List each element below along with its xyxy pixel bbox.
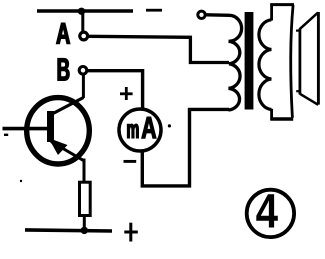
loudspeaker cone [300, 12, 319, 105]
plus polarity (meter) [120, 87, 133, 100]
transformer T1 secondary winding [259, 20, 272, 110]
wire (emitter to resistor) [83, 159, 86, 184]
top supply rail [37, 9, 133, 13]
speck dot [20, 180, 22, 182]
transistor VT1 [27, 98, 90, 165]
wire (base lead) [3, 127, 48, 131]
wire (meter minus loop to transformer bottom) [142, 109, 229, 185]
terminal (primary top) [198, 11, 205, 18]
junction dot [81, 227, 88, 234]
loudspeaker diaphragm [296, 29, 300, 95]
wire (A to transformer tap) [88, 36, 229, 62]
wire (resistor to bottom rail) [83, 216, 86, 231]
minus polarity (meter) [124, 160, 137, 163]
transformer core [245, 12, 254, 110]
transformer T1 primary winding [207, 15, 242, 110]
resistor R1 [80, 182, 91, 215]
wire dash (top rail continuation) [146, 9, 162, 12]
speck dot [168, 124, 171, 127]
wire (B down to collector) [82, 75, 85, 99]
node A label [57, 23, 70, 43]
wire (B to milliammeter) [87, 71, 142, 109]
milliammeter PA1 [119, 109, 161, 151]
terminal A [80, 32, 88, 40]
loudspeaker frame [270, 3, 294, 120]
plus polarity (battery) [124, 223, 138, 242]
bottom supply rail [25, 230, 112, 231]
node B label [58, 59, 69, 81]
figure number 4 [247, 190, 294, 237]
junction dot [78, 8, 85, 15]
speck dash [4, 134, 8, 136]
wire (rail to terminal A) [81, 11, 84, 32]
terminal B [79, 67, 87, 75]
